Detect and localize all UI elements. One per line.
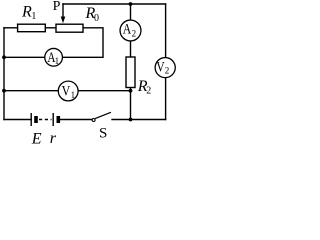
svg-text:1: 1 — [31, 11, 36, 22]
wire A2 drop from top rail — [130, 4, 132, 20]
wire between R1 and R0 — [45, 27, 56, 29]
junction node on bottom wire — [129, 118, 133, 122]
battery dashed link — [39, 119, 52, 121]
switch S lever — [95, 112, 111, 118]
label R2 — [137, 78, 152, 96]
resistor R1 — [18, 24, 46, 32]
svg-text:1: 1 — [71, 90, 76, 100]
svg-text:P: P — [53, 0, 61, 14]
svg-text:A: A — [123, 20, 132, 37]
wire V1 right to node under R2 — [79, 90, 131, 92]
junction node under R2 at V1 wire — [129, 89, 133, 93]
battery cell 2 short thick plate — [56, 116, 60, 123]
junction node on left rail at A1 branch — [2, 55, 6, 59]
wire left rail — [3, 28, 5, 120]
svg-text:V: V — [156, 58, 165, 75]
wire right rail lower — [165, 78, 167, 120]
junction node on left rail at V1 branch — [2, 89, 6, 93]
svg-text:V: V — [62, 82, 71, 99]
ammeter A1 — [45, 48, 63, 66]
battery cell 2 long plate — [52, 113, 54, 126]
svg-text:E: E — [31, 131, 42, 147]
wire top rail — [63, 3, 166, 5]
wire wiper to top rail — [62, 4, 64, 17]
svg-text:2: 2 — [146, 85, 151, 96]
wire R0 right to corner — [63, 28, 103, 58]
switch S pivot — [92, 119, 95, 122]
label R1 — [21, 4, 36, 22]
wire A1 left — [4, 56, 44, 58]
junction node on top rail at A2 branch — [129, 2, 133, 6]
svg-text:0: 0 — [94, 13, 99, 24]
wire R2 bottom to bottom wire — [130, 88, 132, 120]
svg-text:R: R — [21, 4, 32, 21]
wire right rail upper — [165, 4, 167, 57]
battery cell 1 short thick plate — [34, 116, 38, 123]
wiper arrow P — [61, 17, 66, 24]
svg-text:1: 1 — [55, 56, 60, 66]
voltmeter V2 — [155, 58, 175, 78]
svg-text:S: S — [99, 125, 107, 141]
ammeter A2 — [120, 20, 141, 41]
label R0 — [85, 5, 100, 24]
wire A2 to R2 — [130, 41, 132, 57]
wire bottom right — [112, 119, 166, 121]
resistor R2 — [126, 57, 135, 88]
svg-text:2: 2 — [165, 65, 170, 75]
wire battery left — [4, 119, 31, 121]
wire top-left to R1 — [4, 27, 18, 29]
wire V1 left — [4, 90, 58, 92]
svg-text:2: 2 — [132, 28, 137, 38]
wire battery to switch — [60, 119, 92, 121]
rheostat R0 — [56, 24, 83, 32]
battery cell 1 long plate — [30, 113, 32, 126]
svg-text:r: r — [50, 130, 57, 146]
voltmeter V1 — [58, 81, 78, 101]
